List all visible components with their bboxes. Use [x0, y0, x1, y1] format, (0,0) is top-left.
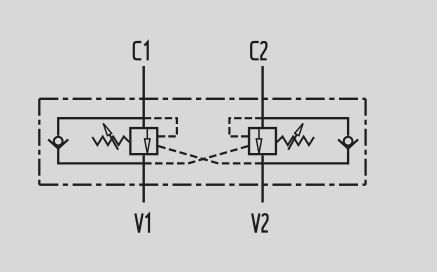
valve block boundary: right chain line [364, 99, 366, 185]
counterbalance valve body (left square) [130, 128, 157, 154]
wire: C2 port vertical line (upper) [261, 66, 263, 127]
flow arrow shaft inside left valve [146, 127, 148, 139]
wire: V2 port vertical line (lower) [261, 155, 263, 202]
check valve ball (right) [344, 137, 353, 146]
label V1 [135, 213, 142, 232]
valve block boundary: top chain line [39, 98, 365, 100]
check valve seat (left) [48, 139, 68, 148]
wire: right check-valve bypass loop [263, 118, 349, 163]
label V2 [252, 213, 259, 232]
counterbalance valve body (right square) [249, 128, 276, 154]
check valve seat (right) [338, 139, 358, 148]
label C1 [134, 42, 142, 59]
flow arrowhead inside right valve (hollow) [256, 139, 261, 154]
pilot line (dashed) from C1 line to left valve spring chamber [144, 118, 177, 136]
valve block boundary: left chain line [38, 99, 40, 185]
wire: C1 port vertical line (upper) [142, 66, 144, 127]
wire: V1 port vertical line (lower) [142, 155, 144, 202]
valve block boundary: bottom chain line [39, 184, 365, 186]
spring (left valve) [92, 137, 129, 146]
cross pilot line (dashed) from left valve to V2 line [158, 146, 262, 163]
spring (right valve) [277, 137, 314, 146]
port labels (condensed DIN-style glyphs drawn as strokes) [134, 42, 268, 233]
pilot line (dashed) from C2 line to right valve spring chamber [229, 118, 262, 136]
flow arrow shaft inside right valve [258, 127, 260, 139]
adjustment arrow shaft (right spring) [288, 135, 297, 150]
check valve ball (left) [54, 137, 63, 146]
cross pilot line (dashed) from right valve to V1 line [144, 146, 248, 163]
label C2 [251, 42, 259, 59]
adjustment arrow shaft (left spring) [110, 135, 119, 150]
adjustment arrowhead (left, hollow) [103, 123, 111, 135]
wire: left check-valve bypass loop [58, 118, 144, 163]
flow arrowhead inside left valve (hollow) [145, 139, 150, 154]
adjustment arrowhead (right, hollow) [295, 123, 303, 135]
